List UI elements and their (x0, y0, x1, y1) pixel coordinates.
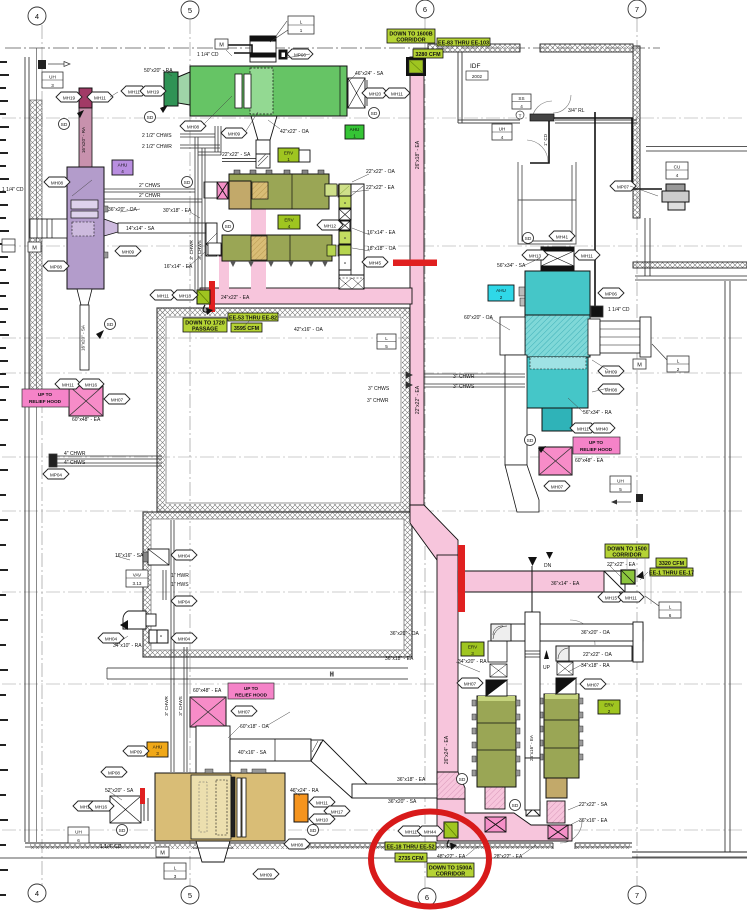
ROOM B (large mech room lower) (143, 512, 412, 657)
svg-text:1 1/4" CD: 1 1/4" CD (100, 844, 122, 850)
horizontal gridline y457 (2, 456, 745, 458)
ERV BOTTOM UNIT (ERV-4) (208, 235, 350, 267)
bottom wall (25, 842, 632, 844)
svg-text:MH19: MH19 (147, 90, 160, 95)
VAV-3.13 box (126, 570, 148, 587)
svg-text:UH: UH (49, 75, 56, 80)
svg-text:ERV: ERV (468, 645, 478, 650)
bottom pink plenum (437, 799, 572, 841)
svg-text:CORRIDOR: CORRIDOR (436, 872, 465, 878)
bubble 5 top (181, 1, 199, 19)
SD (145, 105, 169, 123)
svg-text:MH04: MH04 (178, 554, 191, 559)
svg-text:MH12: MH12 (324, 224, 337, 229)
top tabs (234, 170, 324, 174)
corridor duct below room B (107, 668, 408, 679)
22x22-SA duct stub (222, 158, 256, 160)
svg-text:16"x14" - EA: 16"x14" - EA (367, 230, 396, 236)
svg-text:MH20: MH20 (369, 92, 382, 97)
ERV-2 label (598, 700, 620, 714)
tag MH19 (56, 92, 82, 102)
16x16-SA duct box (143, 549, 169, 565)
svg-text:M: M (32, 246, 37, 252)
discharge box with X right (348, 78, 365, 108)
svg-text:1 1/4" CD: 1 1/4" CD (608, 307, 630, 313)
svg-text:3" CHWR: 3" CHWR (189, 239, 194, 259)
svg-text:4: 4 (35, 889, 39, 898)
2 1/2 CHWS/CHWR to AHU1 (180, 133, 215, 135)
svg-text:MH04: MH04 (105, 637, 118, 642)
svg-text:3" CHWR: 3" CHWR (367, 398, 389, 404)
tag MH13 (522, 250, 548, 260)
pink dotted box ERV2 drop (547, 801, 565, 823)
AHU-1 casing (190, 66, 347, 116)
bubble 6 bottom (418, 888, 436, 906)
tag MH07 hood B (231, 706, 257, 716)
svg-text:3595 CFM: 3595 CFM (234, 326, 260, 332)
svg-text:4: 4 (288, 224, 291, 229)
hatched elbow left end (491, 624, 511, 641)
vertical grid line 6 (424, 18, 426, 888)
svg-text:IDF: IDF (470, 63, 481, 70)
red mark crossing riser y260 (393, 260, 437, 267)
PIPING (49, 126, 525, 772)
tag MH11 (384, 88, 410, 98)
bubble 4 top (28, 7, 46, 25)
svg-text:MH15: MH15 (605, 596, 618, 601)
svg-text:MP04: MP04 (178, 600, 190, 605)
svg-text:EE-1 THRU EE-17: EE-1 THRU EE-17 (649, 571, 694, 577)
svg-text:AHU: AHU (118, 163, 128, 168)
svg-text:3: 3 (174, 874, 177, 879)
svg-text:60"x48" - EA: 60"x48" - EA (72, 417, 101, 423)
ERV-3 label (461, 642, 484, 656)
T thermostat (516, 111, 524, 119)
horizontal gridline y373 (2, 372, 745, 374)
svg-text:ERV: ERV (284, 218, 294, 223)
ROOM A (large mech room upper) (157, 308, 410, 512)
svg-text:ERV: ERV (284, 151, 294, 156)
ERV TOP UNIT (ERV-1 area) (204, 170, 350, 209)
svg-text:46"x24" - SA: 46"x24" - SA (355, 71, 384, 77)
dashed details (216, 780, 227, 835)
svg-text:3: 3 (156, 751, 159, 756)
SD (96, 319, 116, 340)
2735 CFM (395, 853, 427, 862)
svg-text:UP TO: UP TO (589, 440, 604, 445)
svg-text:M: M (637, 363, 642, 369)
RED ELLIPSE MARKUP (371, 812, 489, 907)
svg-text:2" CHWS: 2" CHWS (139, 183, 161, 189)
left OA duct (500, 317, 525, 355)
bottom right wall band (632, 851, 747, 853)
AHU-3 TAN UNIT BOTTOM (110, 726, 437, 862)
svg-text:L: L (669, 605, 672, 610)
tan heat wheel section (229, 181, 251, 209)
svg-text:M: M (595, 311, 600, 317)
right corner vertical (633, 622, 643, 662)
IDF room top right (458, 52, 637, 123)
tag MH11 (73, 801, 99, 811)
svg-text:DN: DN (544, 563, 552, 569)
tabs on tan top (241, 769, 247, 773)
svg-text:T: T (519, 114, 522, 119)
svg-text:4: 4 (501, 135, 504, 140)
svg-text:1: 1 (300, 28, 303, 33)
tag MH17 (324, 806, 350, 816)
svg-text:SD: SD (525, 236, 532, 242)
horizontal gridline y830 (2, 829, 745, 831)
black pipes top right (228, 45, 662, 307)
svg-text:RELIEF HOOD: RELIEF HOOD (580, 447, 613, 452)
svg-text:M: M (219, 43, 224, 49)
svg-text:H: H (330, 672, 334, 678)
svg-text:3" CHWR: 3" CHWR (453, 374, 475, 380)
door arc IDF (532, 101, 552, 121)
AHU-2 CYAN UNIT RIGHT (500, 247, 651, 512)
svg-text:MH19: MH19 (63, 96, 76, 101)
svg-text:MH13: MH13 (529, 254, 542, 259)
svg-text:MH11: MH11 (625, 596, 637, 601)
right connection chartreuse (327, 245, 336, 256)
svg-text:M: M (160, 851, 165, 857)
svg-text:UP TO: UP TO (38, 392, 53, 397)
maroon box ERV lower left (219, 245, 230, 256)
arrow at top (528, 557, 537, 566)
3280 CFM (413, 49, 443, 58)
svg-text:UH: UH (617, 479, 624, 484)
riser top black box (406, 57, 426, 76)
SD (369, 108, 380, 119)
svg-text:MH11: MH11 (62, 383, 74, 388)
tag MH07 (104, 394, 130, 404)
bottom right small fixture (611, 494, 643, 505)
tag MP06 (287, 49, 313, 59)
black arrow VAV (120, 620, 128, 630)
svg-text:ERV: ERV (604, 703, 614, 708)
CHW risers (194, 137, 196, 292)
svg-text:SD: SD (119, 828, 126, 834)
svg-text:SD: SD (225, 224, 232, 230)
top M pipe (228, 45, 252, 53)
tag MH09 (253, 869, 279, 879)
far right wall vertical (724, 281, 726, 852)
tag MH04 (98, 633, 124, 643)
svg-text:3" CHWR: 3" CHWR (164, 695, 169, 715)
down to 1500 corridor (605, 544, 649, 559)
SD (523, 233, 534, 244)
22x22-OA duct (556, 646, 632, 661)
hatched wheel (252, 182, 268, 199)
svg-text:36"x14" - EA: 36"x14" - EA (551, 581, 580, 587)
svg-text:3" CHWS: 3" CHWS (368, 386, 390, 392)
CHARTREUSE KEYNOTE LABELS (183, 29, 694, 878)
horizontal gridline y592 (2, 591, 745, 593)
tag MH11 (574, 250, 600, 260)
svg-text:MP08: MP08 (108, 771, 120, 776)
inner light band (250, 68, 273, 114)
casing upper (525, 271, 590, 315)
svg-text:MH11: MH11 (405, 830, 417, 835)
svg-text:6: 6 (425, 893, 429, 902)
svg-text:SD: SD (147, 115, 154, 121)
40x16-SA duct (230, 739, 311, 761)
svg-text:MH45: MH45 (369, 261, 382, 266)
ERV-1 label (278, 148, 299, 162)
svg-text:60"x48" - EA: 60"x48" - EA (193, 688, 222, 694)
SS-4 box (512, 94, 531, 109)
3595 CFM (231, 323, 262, 332)
tag MH08 (284, 839, 310, 849)
svg-text:SD: SD (512, 803, 519, 809)
svg-text:34"x10" - RA: 34"x10" - RA (113, 643, 142, 649)
diagonal hatch elbow (437, 772, 465, 799)
svg-text:22"x22" - SA: 22"x22" - SA (579, 802, 608, 808)
L-3 box (164, 863, 186, 879)
tag MH12 (317, 220, 343, 230)
relief hood right (by AHU2) (539, 437, 620, 475)
svg-text:L: L (385, 336, 388, 341)
tag MH16 (78, 379, 104, 389)
svg-text:46"x24" - RA: 46"x24" - RA (290, 788, 319, 794)
svg-text:5: 5 (188, 6, 192, 15)
svg-text:2: 2 (608, 709, 611, 714)
svg-text:2" CHWR: 2" CHWR (139, 193, 161, 199)
tag MH11 (121, 86, 147, 96)
svg-text:22"x22" - OA: 22"x22" - OA (583, 652, 613, 658)
svg-text:60"x18" - OA: 60"x18" - OA (240, 724, 270, 730)
svg-text:MH11: MH11 (577, 427, 589, 432)
white diagonal end piece (604, 571, 625, 592)
AHU-2 label (488, 285, 514, 301)
ERV-4 label (278, 215, 300, 229)
3320 CFM (656, 558, 687, 567)
bubble 5 bottom (181, 886, 199, 904)
svg-text:1: 1 (353, 134, 356, 139)
top right wall band (428, 44, 520, 52)
bottom discharge (542, 408, 572, 431)
svg-text:22"x22" - OA: 22"x22" - OA (366, 169, 396, 175)
maroon return riser top (79, 88, 92, 108)
svg-text:1 1/4" CD: 1 1/4" CD (197, 52, 219, 58)
4" CHWR/CHWS left (57, 455, 162, 457)
tag MH08 (180, 121, 206, 131)
OA duct drop (505, 355, 527, 465)
svg-text:1" HWS: 1" HWS (171, 582, 189, 588)
svg-text:UH: UH (75, 830, 82, 835)
right connection boxes (325, 184, 336, 196)
bottom funnel (196, 841, 230, 862)
tag MH16 (88, 801, 114, 811)
svg-text:36"x16" - EA: 36"x16" - EA (579, 818, 608, 824)
coil slots (235, 74, 242, 108)
left edge tick marks (0, 62, 9, 895)
svg-text:MP07: MP07 (617, 185, 629, 190)
svg-text:16"x20" - RA: 16"x20" - RA (81, 126, 86, 153)
AHU-4 PURPLE UNIT LEFT (30, 88, 235, 370)
svg-text:MH11: MH11 (581, 254, 593, 259)
HEXAGON EQUIPMENT TAGS (43, 49, 644, 879)
bubble 6 top (416, 0, 434, 18)
tag MP04 (43, 469, 69, 479)
svg-text:SD: SD (527, 438, 534, 444)
svg-text:MH11: MH11 (391, 92, 403, 97)
svg-text:MH10: MH10 (316, 818, 329, 823)
svg-text:MH09: MH09 (260, 873, 273, 878)
right wall vertical (633, 46, 640, 218)
svg-text:MH18: MH18 (179, 294, 192, 299)
filter box dark green (164, 72, 178, 106)
horizontal gridline y684 (2, 683, 745, 685)
supply funnel below (251, 116, 277, 140)
tag MH04 (171, 550, 197, 560)
svg-text:2: 2 (677, 367, 680, 372)
SMALL TEXT LABELS (2, 52, 636, 860)
tag MP08 (43, 261, 69, 271)
svg-text:SS: SS (518, 96, 524, 101)
tag MH09 (598, 366, 624, 376)
L-6 box (645, 596, 681, 618)
tag MH07 (457, 678, 483, 688)
EA lower riser 26x24 (437, 555, 458, 799)
svg-text:AHU: AHU (350, 127, 360, 132)
EE-53 thru EE-82 (228, 313, 278, 322)
svg-text:RELIEF HOOD: RELIEF HOOD (29, 399, 62, 404)
svg-text:2 1/2" CHWS: 2 1/2" CHWS (142, 133, 172, 139)
svg-text:MH40: MH40 (596, 427, 609, 432)
svg-text:MP08: MP08 (50, 265, 62, 270)
svg-text:52"x20" - SA: 52"x20" - SA (105, 788, 134, 794)
svg-text:1" CD: 1" CD (543, 133, 548, 146)
svg-text:1 1/4" CD: 1 1/4" CD (2, 187, 24, 193)
tag MP06 (598, 288, 624, 298)
tag MH40 (589, 423, 615, 433)
L-1 box top (270, 16, 314, 42)
3" CHW horizontal to AHU2 (424, 373, 525, 375)
svg-text:MH07: MH07 (464, 682, 477, 687)
svg-text:40"x16" - SA: 40"x16" - SA (238, 750, 267, 756)
tag MH11 (570, 423, 596, 433)
tag MP04 (171, 596, 197, 606)
svg-text:MH08: MH08 (291, 843, 304, 848)
svg-text:5: 5 (619, 487, 622, 492)
svg-text:MH07: MH07 (238, 710, 251, 715)
CU-4 tag box (666, 162, 688, 179)
down to 1500A corridor (427, 863, 474, 878)
AHU-1 GREEN UNIT TOP (164, 21, 367, 168)
SD DIFFUSER TAGS (59, 105, 547, 836)
down to 1720 passage (183, 318, 227, 333)
svg-text:6: 6 (77, 838, 80, 843)
EE-18 thru EE-52 (385, 842, 436, 851)
svg-text:26"x24" - EA: 26"x24" - EA (444, 735, 450, 764)
UH-5 box (610, 476, 631, 492)
tag MH20 (362, 88, 388, 98)
svg-text:50"x20" - RA: 50"x20" - RA (144, 68, 173, 74)
left return duct w/ flanges (30, 219, 67, 238)
condensate drop pipe (594, 112, 596, 307)
svg-text:36"x18" - EA: 36"x18" - EA (397, 777, 426, 783)
svg-text:36"x20" - SA: 36"x20" - SA (388, 799, 417, 805)
svg-text:4: 4 (35, 12, 39, 21)
lower section (525, 357, 588, 408)
svg-text:4: 4 (121, 169, 124, 174)
svg-text:7: 7 (635, 891, 639, 900)
ERV-2 UNIT bottom right right (539, 662, 583, 798)
top left fixture (38, 60, 70, 69)
damper above (557, 662, 573, 675)
tag MH41 (549, 231, 575, 241)
tag MH08 (44, 177, 70, 187)
svg-text:4: 4 (676, 173, 679, 178)
svg-text:MH16: MH16 (95, 805, 108, 810)
SD (223, 221, 234, 232)
tag MH07 (544, 481, 570, 491)
svg-text:56"x34" - RA: 56"x34" - RA (583, 410, 612, 416)
white X fitting 28x16 duct end (526, 802, 540, 816)
door opening bottom wall (553, 840, 575, 849)
tag MP08 (101, 767, 127, 777)
svg-text:34"x18" - RA: 34"x18" - RA (581, 663, 610, 669)
EA horizontal 36x14 run right (458, 571, 625, 592)
vertical grid line 5 (189, 20, 191, 890)
svg-text:MH09: MH09 (122, 250, 135, 255)
svg-text:MH09: MH09 (605, 370, 618, 375)
svg-text:MH44: MH44 (424, 830, 437, 835)
AHU-3 label (147, 742, 168, 757)
svg-text:18"x18" - OA: 18"x18" - OA (367, 246, 397, 252)
pink duct ERV3 drop (485, 787, 505, 809)
tag MH04 (171, 633, 197, 643)
horizontal gridline y338 (2, 337, 745, 339)
inner light section (191, 775, 231, 839)
svg-text:4" CHWS: 4" CHWS (64, 460, 86, 466)
right RA duct w/ flanges + round (588, 319, 600, 355)
svg-text:PASSAGE: PASSAGE (192, 327, 218, 333)
hook arrows (203, 305, 208, 312)
L-5 box left of riser (377, 334, 396, 349)
tag MH19 (140, 86, 166, 96)
svg-text:SD: SD (310, 828, 317, 834)
svg-text:EE-53 THRU EE-82: EE-53 THRU EE-82 (229, 316, 277, 322)
svg-text:MH41: MH41 (556, 235, 569, 240)
SD (510, 800, 521, 811)
3/4 RL pipe (553, 118, 662, 189)
svg-text:3" CHWS: 3" CHWS (178, 696, 183, 716)
orange RA box (294, 794, 308, 822)
bottom funnel + SA duct (77, 289, 92, 305)
inner slats (71, 200, 98, 209)
right wall horizontal band (633, 262, 747, 268)
vertical 28x16-EA duct (525, 612, 540, 758)
svg-text:MH11: MH11 (157, 294, 169, 299)
svg-text:6: 6 (669, 613, 672, 618)
svg-text:CU: CU (674, 165, 681, 170)
relief hood bottom center (190, 683, 274, 727)
svg-text:CORRIDOR: CORRIDOR (396, 38, 425, 44)
top vent duct stack (250, 36, 276, 62)
pink X box bottom right (548, 825, 568, 839)
bubble 4 bottom (28, 884, 46, 902)
red mark vertical x208 (209, 281, 215, 312)
svg-text:UP: UP (543, 665, 551, 671)
svg-text:MH07: MH07 (551, 485, 564, 490)
supply duct to right 14x14 (118, 223, 208, 233)
ERV-3 UNIT bottom right left (472, 641, 520, 787)
EA riser elbow to lower riser (410, 505, 458, 560)
2" CHWS/CHWR to AHU4 (104, 188, 195, 190)
vertical grid line 7 (636, 18, 638, 888)
